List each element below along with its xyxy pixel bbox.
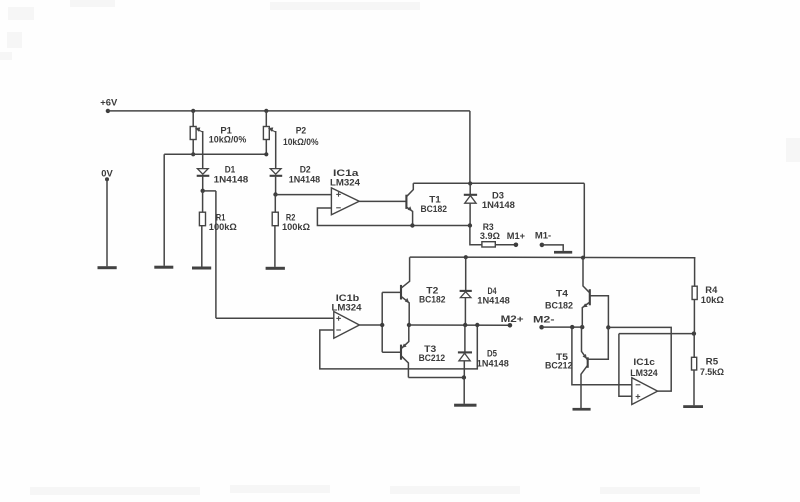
wire M2+ node line	[409, 324, 510, 326]
wire M2- node line	[542, 326, 583, 328]
junction feedback tap	[475, 323, 479, 327]
wire P1 bottom lead	[192, 140, 194, 155]
ground tab M1-	[554, 251, 572, 254]
wire +6V rail	[108, 110, 470, 112]
wire P1 wiper to D1	[202, 131, 204, 169]
svg-text:M2-: M2-	[533, 315, 555, 325]
wire IC1b output stub	[360, 324, 383, 326]
ground under 0V	[98, 266, 117, 269]
transistor T4	[545, 258, 590, 327]
svg-text:1N4148: 1N4148	[289, 174, 321, 184]
svg-text:LM324: LM324	[630, 368, 658, 378]
wire T3 base lead	[382, 351, 400, 353]
wire IC1c plus input path	[619, 334, 632, 397]
svg-text:BC182: BC182	[419, 295, 446, 305]
junction T2/T3 emitters	[407, 323, 411, 327]
wire R4 bottom lead	[693, 300, 695, 334]
svg-text:10kΩ/0%: 10kΩ/0%	[209, 135, 247, 145]
svg-text:D1: D1	[225, 164, 236, 174]
wire into IC1b plus input	[216, 317, 334, 319]
resistor R2	[272, 212, 310, 232]
transistor T5	[545, 327, 588, 408]
wire bottom short rail	[408, 377, 464, 379]
svg-text:100kΩ: 100kΩ	[282, 222, 310, 232]
wire 0V down	[106, 179, 108, 266]
svg-text:R2: R2	[286, 213, 296, 223]
svg-text:T4: T4	[556, 288, 568, 298]
svg-text:IC1c: IC1c	[633, 357, 655, 367]
ground under T5	[573, 408, 591, 411]
potentiometer P2	[263, 126, 318, 147]
node D1/R1	[201, 189, 205, 193]
junction D4 rail	[464, 255, 468, 259]
svg-text:10kΩ/0%: 10kΩ/0%	[283, 137, 319, 147]
ground under tie line	[154, 266, 173, 269]
wire D4 bottom lead	[464, 298, 466, 325]
svg-text:R1: R1	[216, 212, 226, 222]
ground under D4/D5	[454, 404, 476, 407]
svg-text:R5: R5	[706, 357, 719, 367]
svg-text:BC182: BC182	[545, 300, 573, 310]
wire T2 base lead	[382, 291, 400, 293]
svg-text:7.5kΩ: 7.5kΩ	[700, 367, 724, 377]
junction P2 bottom	[264, 152, 268, 156]
ground under R1	[192, 267, 211, 270]
svg-text:BC212: BC212	[419, 353, 446, 363]
wire lower rail	[410, 256, 696, 259]
wire P1 top lead	[192, 111, 194, 127]
ground under R2	[266, 267, 285, 270]
svg-text:M1-: M1-	[535, 231, 551, 241]
node M2- terminal	[533, 315, 555, 330]
junction D3 bottom	[468, 223, 472, 227]
wire +6V drop to T1 node	[469, 111, 471, 183]
wire R5 bottom lead	[693, 370, 695, 405]
svg-text:M2+: M2+	[501, 314, 524, 324]
junction base drive	[606, 325, 610, 329]
op-amp IC1a	[330, 168, 360, 215]
svg-text:LM324: LM324	[330, 177, 360, 187]
wire D1 node right	[203, 190, 216, 192]
node M2+ terminal	[501, 314, 524, 328]
wire R2 top lead	[274, 195, 276, 213]
wire D3 top lead	[469, 184, 471, 195]
transistor T2	[401, 257, 446, 325]
junction D4/D5 at M2+ line	[463, 323, 467, 327]
wire R1 bottom lead	[201, 226, 203, 267]
node M1+ terminal	[507, 231, 525, 247]
wire T4 base to node	[591, 296, 609, 328]
wire P2 wiper to D2	[275, 131, 277, 169]
svg-text:D2: D2	[300, 164, 311, 174]
node 0V terminal	[101, 168, 113, 181]
junction bottom rail	[462, 375, 466, 379]
wire P2 bottom lead	[265, 140, 267, 155]
wire tie line P1-P2	[164, 153, 266, 155]
node +6V terminal	[100, 98, 117, 113]
wire D5 bottom lead	[463, 361, 465, 378]
wire divider to IC1c	[619, 333, 694, 335]
resistor R5	[692, 357, 725, 378]
wire base drive segment to IC1c output	[608, 327, 671, 391]
wire ground drop center	[463, 378, 465, 404]
wire IC1b output branch to bases	[381, 292, 383, 352]
wire tie line drop to ground	[163, 154, 165, 265]
wire D3 bottom lead	[469, 204, 471, 226]
wire drop to R3	[470, 226, 482, 245]
wire long drop to IC1b	[215, 191, 217, 318]
junction R4/R5 divider	[692, 331, 696, 335]
svg-text:D5: D5	[487, 348, 497, 358]
svg-text:+6V: +6V	[100, 98, 117, 108]
wire D5 top lead	[464, 325, 466, 352]
wire R1 top lead	[202, 191, 204, 212]
wire R4 top lead	[694, 258, 696, 287]
wire P2 top lead	[265, 111, 267, 127]
svg-text:BC182: BC182	[421, 204, 448, 214]
svg-text:P2: P2	[296, 126, 307, 136]
wire D4 top lead	[465, 257, 467, 291]
junction T4/T5 emitters	[580, 325, 584, 329]
op-amp IC1b	[332, 293, 362, 338]
node D2/R2	[273, 192, 277, 196]
svg-text:10kΩ: 10kΩ	[701, 295, 724, 305]
svg-text:1N4148: 1N4148	[477, 296, 510, 306]
diode D1	[197, 164, 249, 184]
resistor R3	[480, 222, 500, 247]
wire T5 base from node	[588, 328, 608, 360]
wire sense to IC1c minus	[572, 327, 632, 385]
wire D1 cathode down	[202, 177, 204, 191]
diode D5	[458, 348, 509, 368]
junction D3 top	[468, 181, 472, 185]
wire node drop to lower rail	[583, 183, 585, 257]
op-amp IC1c	[630, 357, 658, 405]
junction P1 bottom	[191, 152, 195, 156]
diode D4	[460, 286, 510, 306]
svg-text:M1+: M1+	[507, 231, 525, 241]
wire T1 collector node line	[413, 182, 584, 184]
svg-text:BC212: BC212	[545, 361, 573, 371]
svg-text:3.9Ω: 3.9Ω	[480, 231, 500, 241]
svg-text:R4: R4	[705, 285, 717, 295]
junction IC1b output	[380, 323, 384, 327]
svg-text:D3: D3	[492, 191, 504, 201]
svg-text:0V: 0V	[101, 168, 113, 178]
ground under R5	[683, 405, 703, 408]
diode D2	[270, 164, 321, 184]
junction T1 emitter	[410, 223, 414, 227]
junction P2 top	[264, 109, 268, 113]
wire R3 to M1+	[495, 244, 516, 246]
junction sense tap	[570, 325, 574, 329]
resistor R4	[692, 285, 724, 305]
svg-text:LM324: LM324	[332, 302, 362, 312]
transistor T1	[406, 183, 447, 225]
wire IC1a output to T1 base	[359, 200, 405, 202]
wire IC1a feedback	[317, 208, 469, 226]
svg-text:1N4148: 1N4148	[482, 200, 515, 210]
svg-text:D4: D4	[488, 286, 497, 296]
svg-text:1N4148: 1N4148	[214, 174, 249, 184]
potentiometer P1	[190, 125, 246, 144]
node M1- terminal	[535, 231, 551, 248]
wire D2 node to IC1a plus input	[276, 194, 332, 196]
wire M1- to ground tab	[542, 245, 563, 251]
wire R5 top lead	[693, 334, 695, 358]
transistor T3	[401, 325, 445, 378]
junction T4 rail	[581, 256, 585, 260]
wire R2 bottom lead	[274, 226, 276, 267]
wire D2 cathode down	[275, 177, 277, 195]
svg-text:100kΩ: 100kΩ	[209, 222, 237, 232]
svg-text:1N4148: 1N4148	[477, 359, 509, 369]
junction P1 top	[191, 109, 195, 113]
resistor R1	[199, 212, 236, 232]
diode D3	[464, 191, 515, 211]
wire IC1b feedback	[320, 325, 478, 369]
